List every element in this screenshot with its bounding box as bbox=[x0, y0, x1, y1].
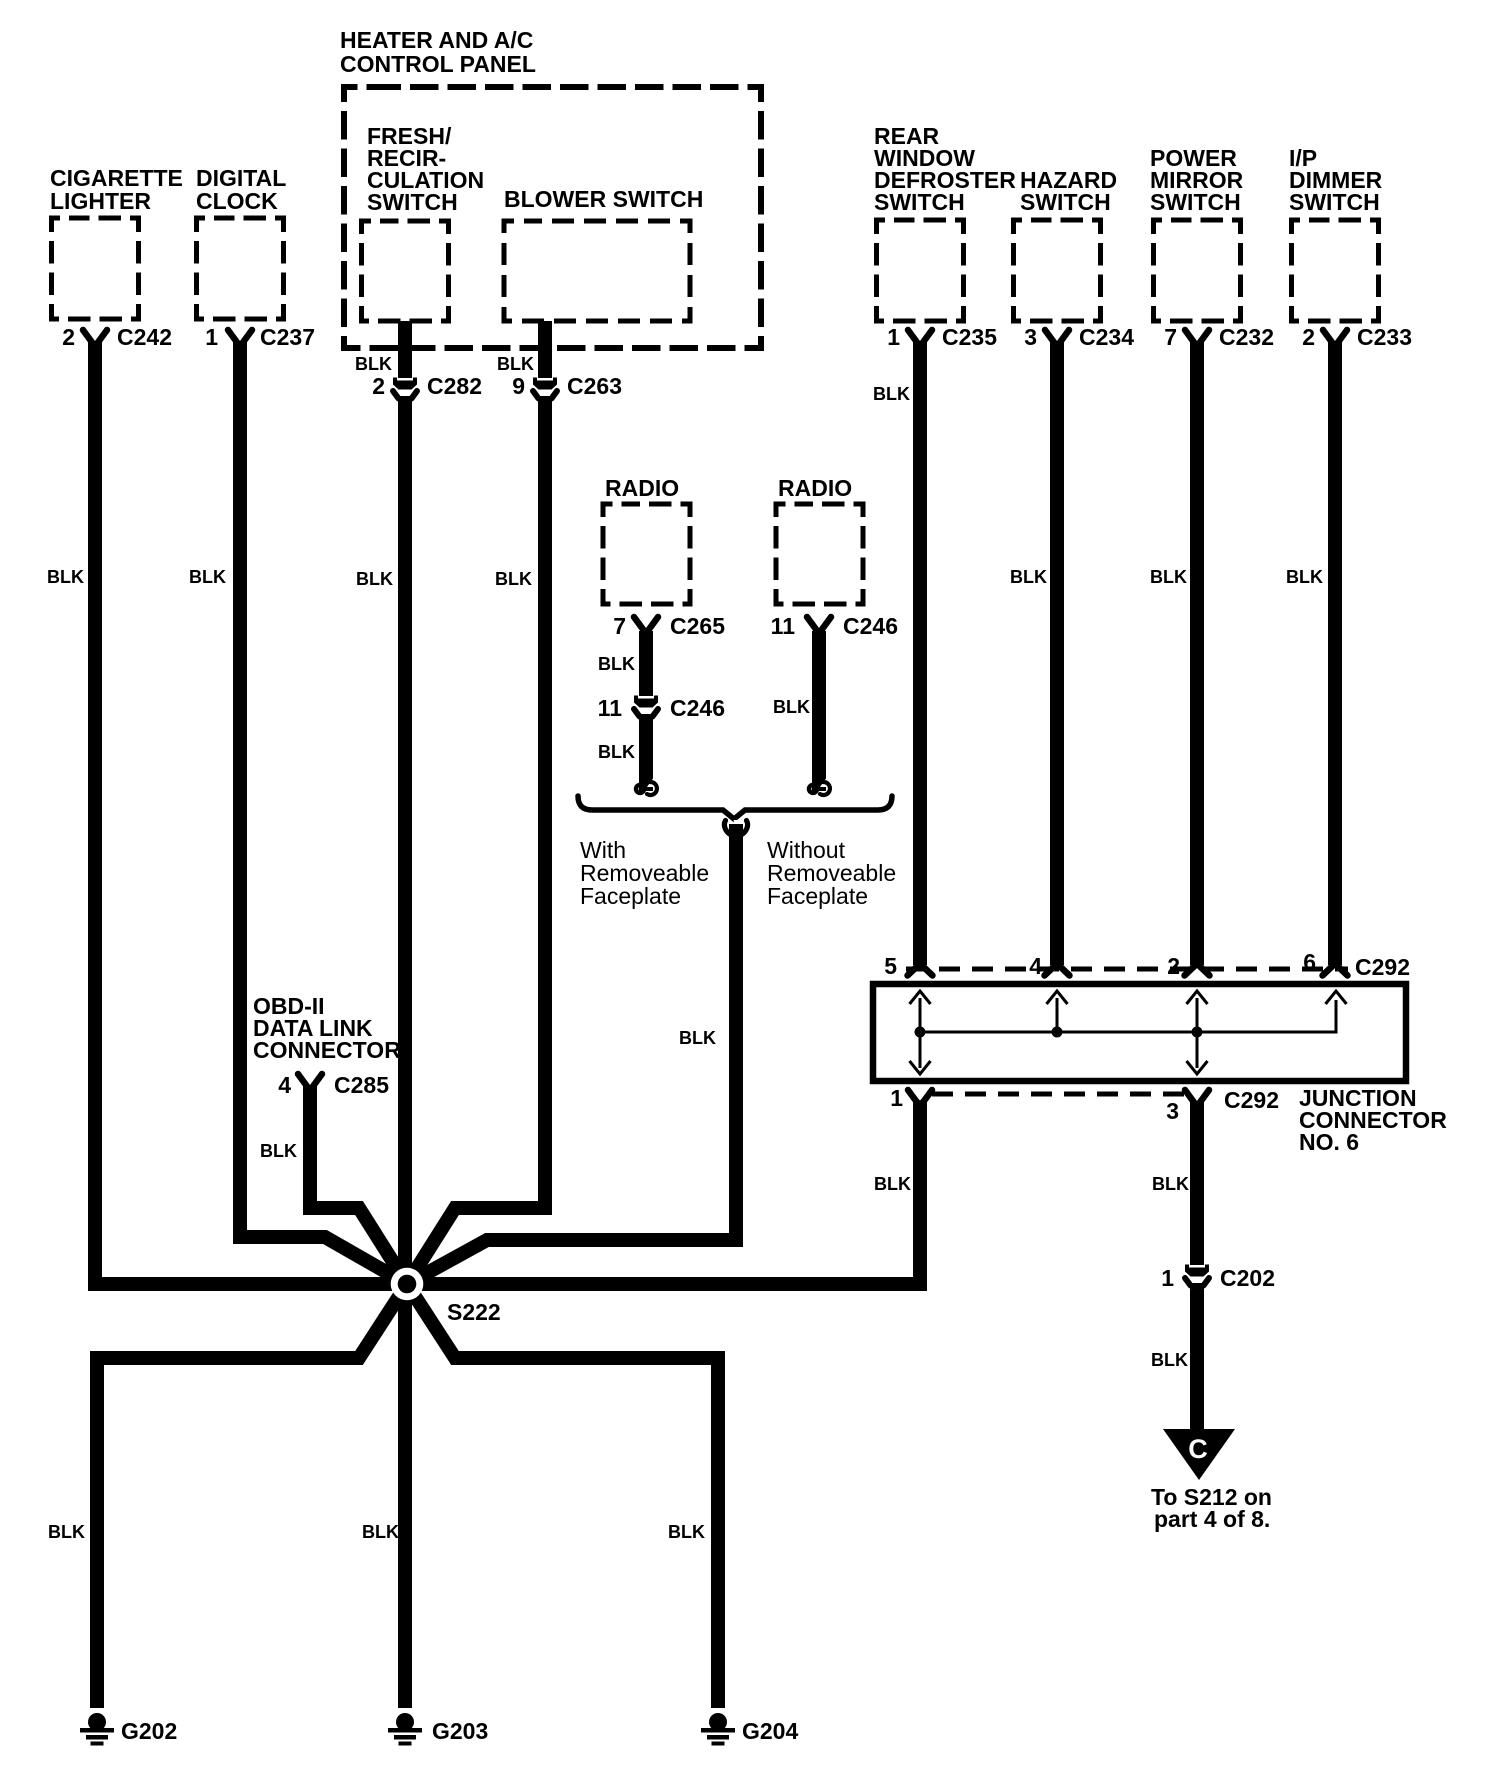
wire: power mirror down to junction pin 2 bbox=[1190, 342, 1204, 965]
inline connector C202 pin 1 bbox=[1185, 1265, 1209, 1286]
svg-text:SWITCH: SWITCH bbox=[1289, 189, 1380, 215]
svg-text:2: 2 bbox=[62, 324, 75, 350]
connector C292 bottom face (dashed) bbox=[932, 1092, 1185, 1097]
svg-text:G204: G204 bbox=[742, 1718, 798, 1744]
svg-text:BLK: BLK bbox=[1150, 567, 1187, 587]
svg-text:BLK: BLK bbox=[362, 1522, 399, 1542]
svg-text:11: 11 bbox=[598, 695, 623, 721]
svg-text:C235: C235 bbox=[942, 324, 997, 350]
junction internal bus wire bbox=[920, 1000, 1336, 1032]
inline connector C263 pin 9 bbox=[533, 378, 557, 399]
junction internal arrowheads down bbox=[910, 1061, 931, 1074]
pin 7 connector C265 bbox=[634, 617, 658, 630]
svg-text:4: 4 bbox=[1029, 953, 1042, 979]
pin 3 connector C234 bbox=[1045, 330, 1069, 343]
svg-text:BLK: BLK bbox=[1152, 1174, 1189, 1194]
svg-text:BLK: BLK bbox=[260, 1141, 297, 1161]
svg-text:Faceplate: Faceplate bbox=[767, 883, 868, 909]
ground G202 bbox=[80, 1713, 114, 1746]
svg-text:2: 2 bbox=[1302, 324, 1315, 350]
svg-text:4: 4 bbox=[278, 1072, 291, 1098]
svg-text:7: 7 bbox=[1164, 324, 1177, 350]
label RADIO (with removeable faceplate) bbox=[605, 475, 679, 501]
svg-text:C282: C282 bbox=[427, 373, 482, 399]
svg-text:BLK: BLK bbox=[1151, 1350, 1188, 1370]
svg-text:C265: C265 bbox=[670, 613, 725, 639]
wire: blower switch down, elbow left, diagonal into S222 (gap at C263) bbox=[538, 321, 552, 378]
component box CIGARETTE LIGHTER bbox=[52, 218, 139, 319]
svg-text:BLK: BLK bbox=[598, 742, 635, 762]
inline connector C246 pin 11 bbox=[634, 696, 658, 717]
svg-text:SWITCH: SWITCH bbox=[1020, 189, 1111, 215]
wire: S222 to G204 bbox=[407, 1284, 718, 1708]
svg-text:BLK: BLK bbox=[1010, 567, 1047, 587]
pin 2 connector C292 bbox=[1185, 966, 1210, 976]
svg-text:G203: G203 bbox=[432, 1718, 488, 1744]
pin 6 connector C292 bbox=[1323, 966, 1348, 976]
wire end hook radio 2 bbox=[809, 777, 830, 795]
component box BLOWER SWITCH bbox=[504, 221, 690, 321]
label JUNCTION CONNECTOR NO. 6 bbox=[1299, 1085, 1447, 1155]
label RADIO (without removeable faceplate) bbox=[778, 475, 852, 501]
label FRESH/RECIRCULATION SWITCH bbox=[367, 123, 484, 215]
svg-text:BLK: BLK bbox=[679, 1028, 716, 1048]
svg-text:C202: C202 bbox=[1220, 1265, 1275, 1291]
svg-text:6: 6 bbox=[1303, 949, 1316, 975]
wire: fresh/recirc switch down through S222 to G203 (gap at C282) bbox=[398, 321, 412, 378]
svg-text:Faceplate: Faceplate bbox=[580, 883, 681, 909]
svg-text:SWITCH: SWITCH bbox=[874, 189, 965, 215]
label HAZARD SWITCH bbox=[1020, 167, 1117, 215]
svg-text:BLK: BLK bbox=[356, 569, 393, 589]
svg-text:RADIO: RADIO bbox=[778, 475, 852, 501]
svg-text:SWITCH: SWITCH bbox=[367, 189, 458, 215]
wire: cigarette lighter down, horizontal through S222, up to junction pin 1 bbox=[95, 342, 920, 1284]
svg-text:G202: G202 bbox=[121, 1718, 177, 1744]
pin 7 connector C232 bbox=[1185, 330, 1209, 343]
connector C292 top face (dashed) bbox=[906, 967, 1348, 972]
svg-text:BLK: BLK bbox=[873, 384, 910, 404]
svg-text:NO. 6: NO. 6 bbox=[1299, 1129, 1359, 1155]
wire: combined radio wire down, elbow left, diagonal into S222 bbox=[407, 824, 736, 1284]
svg-text:HEATER AND A/C: HEATER AND A/C bbox=[340, 27, 533, 53]
junction connector no. 6 body bbox=[873, 984, 1406, 1081]
svg-text:C246: C246 bbox=[670, 695, 725, 721]
pin 3 connector C292 bbox=[1185, 1090, 1209, 1103]
label POWER MIRROR SWITCH bbox=[1150, 145, 1244, 215]
component box HAZARD SWITCH bbox=[1014, 220, 1101, 321]
svg-text:7: 7 bbox=[613, 613, 626, 639]
component box RADIO 1 bbox=[603, 504, 690, 604]
svg-text:SWITCH: SWITCH bbox=[1150, 189, 1241, 215]
component box POWER MIRROR SWITCH bbox=[1154, 220, 1241, 321]
svg-text:BLK: BLK bbox=[668, 1522, 705, 1542]
svg-text:C263: C263 bbox=[567, 373, 622, 399]
svg-text:11: 11 bbox=[771, 613, 796, 639]
svg-text:BLK: BLK bbox=[48, 1522, 85, 1542]
svg-text:C: C bbox=[1188, 1434, 1208, 1464]
svg-text:3: 3 bbox=[1024, 324, 1037, 350]
svg-text:1: 1 bbox=[890, 1085, 903, 1111]
svg-text:BLK: BLK bbox=[598, 654, 635, 674]
svg-text:LIGHTER: LIGHTER bbox=[50, 188, 151, 214]
svg-text:BLK: BLK bbox=[497, 354, 534, 374]
svg-text:C292: C292 bbox=[1355, 954, 1410, 980]
svg-text:2: 2 bbox=[1167, 953, 1180, 979]
svg-text:C242: C242 bbox=[117, 324, 172, 350]
svg-text:BLK: BLK bbox=[47, 567, 84, 587]
svg-text:C234: C234 bbox=[1079, 324, 1134, 350]
pin 1 connector C292 bbox=[908, 1090, 932, 1103]
svg-text:1: 1 bbox=[887, 324, 900, 350]
wire end hook radio 1 bbox=[636, 777, 657, 795]
brace merging radio ground wires bbox=[578, 796, 892, 819]
wire: radio 2 down to hook bbox=[812, 631, 826, 791]
label BLOWER SWITCH bbox=[504, 186, 703, 212]
svg-text:BLK: BLK bbox=[189, 567, 226, 587]
component box REAR WINDOW DEFROSTER SWITCH bbox=[877, 220, 964, 321]
label CIGARETTE LIGHTER bbox=[50, 165, 183, 214]
svg-text:C232: C232 bbox=[1219, 324, 1274, 350]
pin 1 connector C235 bbox=[908, 330, 932, 343]
svg-text:CONTROL PANEL: CONTROL PANEL bbox=[340, 51, 536, 77]
svg-text:C292: C292 bbox=[1224, 1087, 1279, 1113]
pin 2 connector C233 bbox=[1323, 330, 1347, 343]
svg-text:part 4 of 8.: part 4 of 8. bbox=[1154, 1506, 1270, 1532]
label OBD-II DATA LINK CONNECTOR bbox=[253, 993, 401, 1063]
svg-text:C246: C246 bbox=[843, 613, 898, 639]
junction bus nodes bbox=[915, 1027, 926, 1038]
svg-text:C233: C233 bbox=[1357, 324, 1412, 350]
svg-text:RADIO: RADIO bbox=[605, 475, 679, 501]
svg-text:2: 2 bbox=[372, 373, 385, 399]
wire: rear window defroster down to junction pin 5 bbox=[913, 342, 927, 965]
label I/P DIMMER SWITCH bbox=[1289, 145, 1383, 215]
component box FRESH/RECIRCULATION SWITCH bbox=[362, 221, 449, 321]
svg-text:C237: C237 bbox=[260, 324, 315, 350]
inline connector C282 pin 2 bbox=[393, 378, 417, 399]
label REAR WINDOW DEFROSTER SWITCH bbox=[874, 123, 1016, 215]
wire: hazard switch down to junction pin 4 bbox=[1050, 342, 1064, 965]
svg-text:S222: S222 bbox=[447, 1299, 501, 1325]
label HEATER AND A/C CONTROL PANEL bbox=[340, 27, 536, 77]
svg-text:1: 1 bbox=[1161, 1265, 1174, 1291]
label DIGITAL CLOCK bbox=[196, 165, 286, 214]
junction internal arrowheads up bbox=[910, 991, 931, 1004]
svg-text:C285: C285 bbox=[334, 1072, 389, 1098]
svg-text:9: 9 bbox=[512, 373, 525, 399]
pin 5 connector C292 bbox=[908, 966, 933, 976]
pin 2 connector C242 bbox=[83, 330, 107, 343]
svg-text:3: 3 bbox=[1166, 1098, 1179, 1124]
ground G204 bbox=[701, 1713, 735, 1746]
wire: junction pin 3 down to S212 arrow (gap at C202) bbox=[1190, 1101, 1204, 1265]
splice S222 bbox=[391, 1268, 424, 1301]
svg-text:BLOWER SWITCH: BLOWER SWITCH bbox=[504, 186, 703, 212]
component box I/P DIMMER SWITCH bbox=[1292, 220, 1379, 321]
pin 11 connector C246 bbox=[807, 617, 831, 630]
component box RADIO 2 bbox=[776, 504, 863, 604]
wire: i/p dimmer down to junction pin 6 bbox=[1328, 342, 1342, 965]
svg-text:BLK: BLK bbox=[874, 1174, 911, 1194]
svg-text:BLK: BLK bbox=[495, 569, 532, 589]
component box DIGITAL CLOCK bbox=[197, 218, 284, 319]
svg-text:BLK: BLK bbox=[355, 354, 392, 374]
wire: radio 1 down to hook (gap at C246) bbox=[639, 631, 653, 696]
ground G203 bbox=[388, 1713, 422, 1746]
svg-text:CONNECTOR: CONNECTOR bbox=[253, 1037, 401, 1063]
pin 4 connector C285 bbox=[298, 1074, 322, 1087]
wire: obd-ii connector down, elbow right, diagonal into S222 bbox=[310, 1086, 407, 1284]
wire: digital clock down to elbow then diagonal into S222 bbox=[240, 342, 407, 1284]
pin 4 connector C292 bbox=[1045, 966, 1070, 976]
svg-text:CLOCK: CLOCK bbox=[196, 188, 278, 214]
svg-text:5: 5 bbox=[884, 953, 897, 979]
svg-text:BLK: BLK bbox=[773, 697, 810, 717]
svg-text:BLK: BLK bbox=[1286, 567, 1323, 587]
fork at top of combined radio wire bbox=[734, 820, 739, 834]
component box HEATER AND A/C CONTROL PANEL bbox=[344, 87, 761, 348]
svg-text:1: 1 bbox=[205, 324, 218, 350]
pin 1 connector C237 bbox=[228, 330, 252, 343]
wire: S222 to G202 bbox=[97, 1284, 407, 1708]
